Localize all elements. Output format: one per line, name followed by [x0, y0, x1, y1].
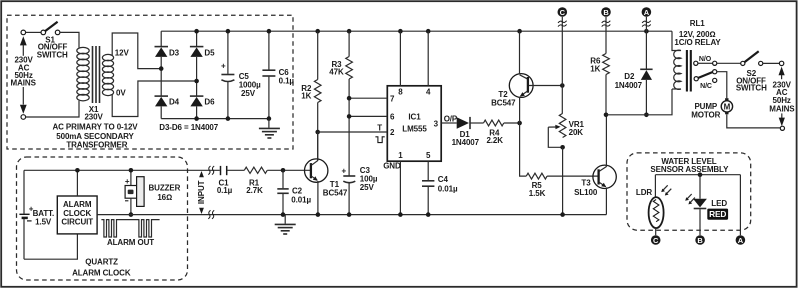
- svg-text:SWITCH: SWITCH: [736, 83, 767, 92]
- label S2 ON/OFF SWITCH: [736, 69, 767, 92]
- svg-text:0.01µ: 0.01µ: [438, 185, 458, 194]
- svg-text:3: 3: [434, 120, 439, 129]
- mains down arrow right: [779, 113, 785, 126]
- junction VR1 rail: [560, 212, 565, 217]
- junction rail probe A: [644, 29, 649, 34]
- svg-text:B: B: [603, 8, 609, 17]
- wire R4 to T2 emitter junction: [504, 122, 520, 124]
- label R1 2.7K: [246, 178, 263, 195]
- junction rail C5: [226, 29, 231, 34]
- svg-text:A: A: [644, 8, 650, 17]
- svg-text:12V: 12V: [115, 48, 130, 57]
- label S1 ON/OFF SWITCH: [37, 35, 68, 59]
- mains input terminal (bottom): [21, 115, 26, 120]
- junction rail T2 collector: [517, 29, 522, 34]
- svg-text:5: 5: [426, 151, 431, 160]
- svg-text:C4: C4: [438, 175, 449, 184]
- junction R2 pin2: [315, 130, 320, 135]
- +12V top rail: [161, 30, 672, 32]
- svg-text:TRANSFORMER: TRANSFORMER: [66, 141, 127, 150]
- svg-text:D3: D3: [169, 48, 180, 57]
- T2 base wire: [529, 85, 562, 87]
- label C6 0.1u: [279, 68, 295, 85]
- diode D5: [190, 47, 204, 57]
- svg-text:BC547: BC547: [323, 189, 348, 198]
- N/O stationary contact: [694, 61, 717, 65]
- label BUZZER 16ohm: [148, 183, 180, 202]
- input arrow down: [199, 208, 204, 214]
- diode D6: [190, 96, 204, 106]
- LED: [693, 175, 707, 236]
- svg-text:6: 6: [390, 113, 395, 122]
- relay pole blade: [694, 70, 717, 81]
- pin 4 stub: [427, 31, 429, 86]
- wire R6 bottom: [605, 75, 607, 115]
- node C top: [558, 7, 568, 17]
- capacitor C3: [343, 176, 355, 215]
- node C bottom: [651, 235, 661, 245]
- svg-text:+: +: [342, 166, 347, 175]
- capacitor C5: [221, 31, 234, 118]
- clock bottom loop wire: [24, 234, 77, 259]
- svg-text:8: 8: [398, 88, 403, 97]
- svg-text:BUZZER: BUZZER: [148, 183, 180, 192]
- diode D4: [155, 96, 169, 106]
- svg-text:D4: D4: [169, 98, 180, 107]
- resistor R6: [603, 54, 610, 75]
- junction rail pin4: [426, 29, 431, 34]
- svg-text:C: C: [653, 236, 659, 245]
- alarm clock circuit box: [57, 196, 97, 234]
- svg-text:CIRCUIT: CIRCUIT: [61, 218, 93, 227]
- svg-text:4: 4: [426, 88, 431, 97]
- svg-text:MAINS: MAINS: [11, 78, 37, 87]
- svg-text:T3: T3: [581, 179, 591, 188]
- svg-text:0.1µ: 0.1µ: [279, 76, 295, 85]
- svg-text:O/P: O/P: [444, 115, 458, 124]
- break mark input bottom: [208, 210, 214, 219]
- svg-text:CLOCK: CLOCK: [63, 209, 91, 218]
- bridge right branch wire: [196, 31, 198, 46]
- junction D6 bottom: [194, 116, 199, 121]
- label C5 1000u 25V: [239, 72, 261, 98]
- alarm out waveform: [101, 220, 159, 237]
- wire mains bottom to primary: [26, 101, 79, 117]
- wire D1 to R4: [470, 122, 484, 124]
- wire to LDR: [654, 175, 656, 198]
- svg-text:1C/O RELAY: 1C/O RELAY: [674, 38, 721, 47]
- svg-text:IC1: IC1: [408, 113, 421, 122]
- pin 7 wire: [349, 97, 387, 99]
- junction C5 bottom: [226, 116, 231, 121]
- junction pin6 R3: [347, 114, 352, 119]
- svg-text:2.7K: 2.7K: [246, 186, 263, 195]
- resistor R3: [346, 31, 353, 175]
- svg-text:1.5K: 1.5K: [529, 189, 546, 198]
- junction VR1 bottom: [560, 145, 565, 150]
- buzzer polarity marks: [125, 177, 130, 201]
- label T2 BC547: [491, 90, 516, 107]
- break mark input top: [208, 166, 214, 175]
- water level sensor dashed enclosure: [627, 153, 751, 230]
- transformer X1 primary winding: [77, 47, 89, 101]
- svg-text:BC547: BC547: [491, 98, 516, 107]
- label C1 0.1u: [217, 178, 233, 195]
- mains input terminal (top): [21, 30, 26, 35]
- junction clock circuit top: [75, 168, 80, 173]
- resistor R4: [484, 120, 504, 126]
- junction rail D5: [194, 29, 199, 34]
- rectifier bottom rail: [161, 118, 269, 120]
- svg-text:N/C: N/C: [700, 83, 712, 90]
- junction C2 top: [281, 168, 286, 173]
- svg-text:AC PRIMARY TO 0-12V: AC PRIMARY TO 0-12V: [52, 123, 138, 132]
- sensor bus wire: [655, 174, 740, 176]
- label 230V AC 50Hz MAINS right: [769, 80, 795, 113]
- svg-text:N/O: N/O: [699, 56, 712, 63]
- transformer caption: [52, 123, 138, 150]
- svg-text:ALARM OUT: ALARM OUT: [107, 238, 154, 247]
- break mark probe C: [558, 21, 567, 27]
- wire VR1 top: [561, 86, 563, 114]
- break mark probe B: [602, 21, 611, 27]
- svg-text:+: +: [221, 62, 226, 71]
- wire motor to mains bottom: [727, 114, 781, 128]
- node A bottom: [736, 235, 746, 245]
- 0V tap wire: [111, 81, 197, 117]
- junction C4 bottom: [426, 212, 431, 217]
- svg-text:LED: LED: [711, 199, 727, 208]
- mains up arrow: [20, 36, 27, 56]
- probe A line: [645, 17, 647, 69]
- capacitor C6: [262, 31, 275, 118]
- wire T2 emitter down to R5: [520, 123, 527, 176]
- mains right terminal top: [779, 61, 783, 65]
- junction C3 bottom: [347, 212, 352, 217]
- svg-text:20K: 20K: [569, 128, 584, 137]
- transformer X1 core: [93, 46, 100, 103]
- label D1 1N4007: [452, 130, 480, 147]
- wire R5 to T3 base: [547, 175, 597, 177]
- LDR light arrows: [661, 185, 671, 195]
- label BATT. 1.5V: [27, 209, 54, 227]
- switch S2: [741, 51, 763, 65]
- diode D1: [457, 117, 470, 129]
- buzzer: [125, 170, 144, 214]
- node B bottom: [695, 235, 705, 245]
- wire VR1 to ground rail: [562, 147, 564, 214]
- IC1 LM555 body: [387, 86, 441, 161]
- diode D2: [640, 69, 652, 115]
- transistor T3: [593, 115, 616, 215]
- svg-text:1K: 1K: [590, 64, 600, 73]
- svg-text:C2: C2: [292, 187, 303, 196]
- svg-text:16Ω: 16Ω: [157, 193, 172, 202]
- pin 1 wire: [399, 161, 401, 214]
- wire sensor right to node A: [739, 175, 741, 236]
- mains voltage label 230V AC 50Hz MAINS: [11, 56, 37, 88]
- diode D3: [155, 47, 169, 57]
- label RL1 12V 200ohm 1C/O RELAY: [674, 19, 721, 47]
- label IC1 LM555: [402, 113, 427, 134]
- N/C stationary contact: [713, 78, 717, 82]
- label C4 0.01u: [438, 175, 458, 193]
- label R6 1K: [590, 57, 601, 74]
- label T1 BC547: [323, 180, 348, 197]
- capacitor C4: [422, 181, 434, 215]
- trigger pulse glyph: [375, 137, 384, 143]
- label R3 47K: [329, 60, 344, 77]
- svg-text:SL100: SL100: [574, 188, 598, 197]
- junction R6 T3 collector: [604, 113, 609, 118]
- mains right terminal bottom: [780, 126, 784, 130]
- pin 6 wire: [349, 115, 387, 117]
- label D2 1N4007: [615, 72, 643, 90]
- transistor T1: [305, 132, 328, 215]
- pin 5 wire: [427, 161, 429, 180]
- svg-text:0.1µ: 0.1µ: [217, 186, 233, 195]
- svg-text:C: C: [560, 8, 566, 17]
- svg-text:B: B: [697, 236, 703, 245]
- resistor R1: [244, 167, 267, 173]
- label RED badge: [707, 209, 728, 220]
- svg-text:2: 2: [390, 128, 395, 137]
- svg-text:0.01µ: 0.01µ: [291, 195, 311, 204]
- junction rail R3: [347, 29, 352, 34]
- junction rail R2: [315, 29, 320, 34]
- svg-text:ALARM: ALARM: [63, 200, 92, 209]
- wire N/O to S2: [717, 62, 741, 64]
- label VR1 20K: [569, 120, 585, 137]
- svg-text:D6: D6: [204, 98, 215, 107]
- transistor T2: [509, 31, 533, 123]
- junction T2 base VR1: [560, 83, 565, 88]
- junction T2 emitter R4 R5: [517, 121, 522, 126]
- svg-text:25V: 25V: [360, 183, 375, 192]
- junction rail pin8: [398, 29, 403, 34]
- junction rail C6: [267, 29, 272, 34]
- junction T1 emitter rail: [316, 212, 321, 217]
- wire clock circuit to top: [76, 170, 78, 196]
- label X1 230V: [84, 105, 103, 122]
- ground rail lower: [97, 214, 606, 216]
- svg-text:2.2K: 2.2K: [486, 136, 503, 145]
- node A top: [642, 7, 652, 17]
- svg-text:1.5V: 1.5V: [35, 217, 52, 226]
- wire T3 collector to relay: [606, 89, 672, 115]
- svg-text:47K: 47K: [329, 68, 344, 77]
- svg-text:0V: 0V: [116, 89, 126, 98]
- junction D2 bottom: [644, 113, 649, 118]
- svg-text:INPUT: INPUT: [197, 180, 206, 204]
- junction C2 bottom: [281, 212, 286, 217]
- clock top wire: [24, 169, 220, 171]
- svg-text:RL1: RL1: [690, 19, 705, 28]
- svg-text:A: A: [738, 236, 744, 245]
- power supply dashed enclosure: [7, 15, 293, 149]
- svg-text:QUARTZ: QUARTZ: [85, 257, 118, 266]
- svg-text:7: 7: [390, 94, 395, 103]
- mains down arrow: [20, 87, 27, 114]
- svg-text:LDR: LDR: [636, 188, 652, 197]
- bridge left branch wire: [160, 31, 162, 46]
- junction buzzer top: [129, 168, 134, 173]
- resistor R2: [314, 31, 321, 160]
- label QUARTZ ALARM CLOCK: [72, 257, 131, 277]
- label WATER LEVEL SENSOR ASSEMBLY: [650, 157, 729, 174]
- label T3 SL100: [574, 179, 598, 198]
- wire from S1 to primary: [60, 32, 79, 47]
- junction buzzer bottom: [129, 212, 134, 217]
- LED emission arrows: [685, 194, 695, 204]
- label PUMP MOTOR: [691, 102, 720, 119]
- node B top: [601, 7, 611, 17]
- svg-text:RED: RED: [709, 209, 726, 219]
- wire: [26, 31, 41, 33]
- svg-text:GND: GND: [383, 161, 401, 170]
- probe C line upper: [561, 17, 563, 86]
- junction pin7 R3: [347, 96, 352, 101]
- signal ground symbol: [275, 215, 296, 234]
- svg-text:T: T: [377, 124, 382, 133]
- pin 3 wire: [441, 122, 457, 124]
- label R2 1K: [301, 84, 312, 101]
- svg-text:25V: 25V: [241, 89, 256, 98]
- label C3 100u 25V: [360, 166, 378, 192]
- junction sensor LED: [698, 172, 703, 177]
- quartz alarm clock dashed enclosure: [17, 157, 188, 280]
- wire pole to motor: [717, 72, 727, 99]
- 12V tap wire: [111, 33, 162, 69]
- potmeter VR1: [548, 113, 566, 147]
- capacitor C1: [221, 166, 245, 175]
- transformer X1 secondary winding: [102, 54, 113, 95]
- svg-text:D5: D5: [204, 48, 215, 57]
- pin 8 stub: [399, 31, 401, 86]
- LDR: [649, 197, 664, 235]
- relay RL1 coil: [672, 31, 681, 89]
- svg-text:M: M: [724, 103, 731, 112]
- wire R1 to T1 base: [267, 169, 310, 171]
- switch S1: [41, 22, 60, 35]
- svg-text:MOTOR: MOTOR: [691, 110, 720, 119]
- supply ground symbol: [259, 119, 280, 138]
- resistor R5: [526, 173, 547, 179]
- svg-text:MAINS: MAINS: [769, 105, 795, 114]
- pin 2 wire: [318, 131, 388, 133]
- pump motor M: [721, 98, 732, 114]
- svg-text:+: +: [125, 177, 130, 186]
- svg-text:LM555: LM555: [402, 125, 427, 134]
- svg-text:1: 1: [398, 151, 403, 160]
- input arrow up: [199, 171, 204, 177]
- battery BATT 1.5V: [19, 170, 29, 259]
- junction C6 bottom: [267, 116, 272, 121]
- label R5 1.5K: [529, 181, 546, 198]
- svg-text:1K: 1K: [301, 92, 311, 101]
- svg-text:1N4007: 1N4007: [615, 81, 643, 90]
- label R4 2.2K: [486, 128, 503, 145]
- svg-text:230V: 230V: [84, 113, 103, 122]
- wire S2 to mains terminal: [763, 62, 780, 64]
- svg-text:D3-D6 = 1N4007: D3-D6 = 1N4007: [159, 123, 219, 132]
- relay core: [687, 50, 691, 92]
- svg-text:ALARM CLOCK: ALARM CLOCK: [72, 268, 131, 277]
- svg-text:1N4007: 1N4007: [452, 138, 480, 147]
- svg-text:D2: D2: [624, 72, 635, 81]
- svg-text:SENSOR ASSEMBLY: SENSOR ASSEMBLY: [650, 165, 729, 174]
- junction 0V feed: [194, 79, 199, 84]
- capacitor C2: [277, 170, 288, 214]
- junction pin1 rail: [398, 212, 403, 217]
- svg-text:SWITCH: SWITCH: [37, 50, 68, 59]
- break mark probe A: [642, 21, 651, 27]
- junction 12V feed: [159, 66, 164, 71]
- probe B line to R6: [605, 17, 607, 54]
- label C2 0.01u: [291, 187, 311, 205]
- mains up arrow right: [779, 67, 785, 80]
